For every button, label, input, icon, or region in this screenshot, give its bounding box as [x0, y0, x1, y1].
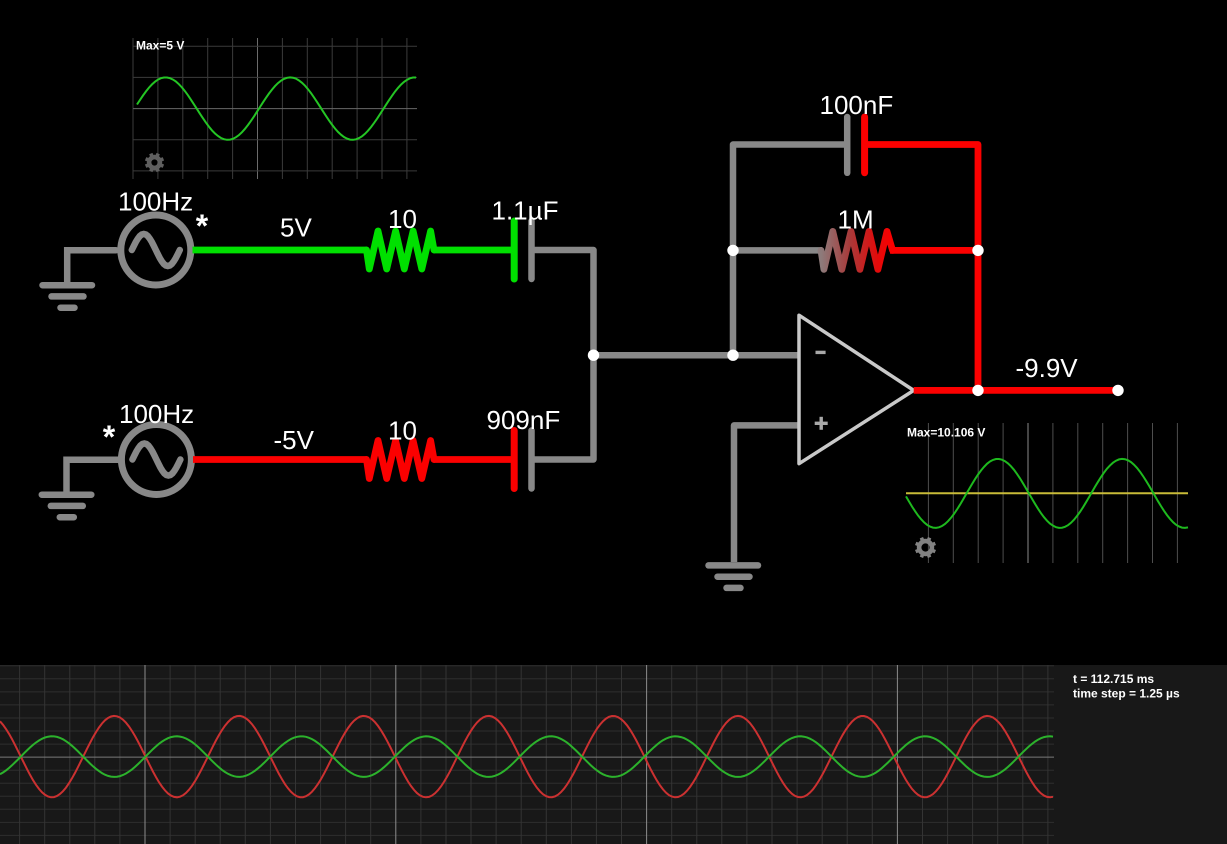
- op-amp U1: [799, 315, 914, 464]
- scope 1 gear icon: [146, 154, 164, 172]
- wire C1 to bus: [532, 250, 594, 355]
- bottom scope green trace: [0, 736, 1053, 777]
- junction node feedback left: [727, 245, 738, 256]
- wire op-amp + input elbow to ground: [734, 425, 799, 562]
- resistor R1: [367, 231, 435, 269]
- svg-text:909nF: 909nF: [487, 405, 561, 435]
- scope 2 gear icon: [916, 538, 936, 558]
- op-amp plus sign: [815, 422, 828, 425]
- wire R1 to C1 (green): [434, 247, 515, 254]
- bottom scope grid: [0, 665, 1054, 844]
- op-amp output wire (red): [914, 387, 1118, 394]
- ground G2: [42, 460, 119, 518]
- scope strip background: [0, 665, 1227, 844]
- svg-text:5V: 5V: [280, 213, 312, 243]
- output terminal post: [1112, 385, 1123, 396]
- capacitor C1 1.1uF: [511, 221, 518, 279]
- junction node inverting input: [727, 350, 738, 361]
- capacitor C2 909nF: [511, 431, 518, 489]
- svg-text:1M: 1M: [838, 205, 874, 235]
- svg-text:-5V: -5V: [274, 425, 315, 455]
- bottom scope red trace: [0, 716, 1053, 797]
- resistor R3 1M: [821, 231, 893, 269]
- ground G1: [43, 250, 117, 308]
- svg-text:100nF: 100nF: [820, 90, 894, 120]
- scope 2 trace: [906, 459, 1188, 528]
- wire V2 to R2 (red): [193, 456, 367, 463]
- svg-text:Max=10.106 V: Max=10.106 V: [907, 426, 985, 440]
- resistor R3 lead right (red): [890, 247, 978, 254]
- junction node feedback right: [972, 245, 983, 256]
- svg-text:Max=5 V: Max=5 V: [136, 39, 184, 53]
- scope 1 trace: [137, 77, 416, 139]
- svg-text:-9.9V: -9.9V: [1016, 353, 1079, 383]
- op-amp minus sign: [816, 351, 826, 354]
- AC source V2: [121, 425, 191, 495]
- resistor R3 lead left (gray): [733, 247, 822, 254]
- svg-text:10: 10: [388, 204, 417, 234]
- wire bus to op-amp inverting input: [594, 352, 800, 359]
- junction node bus: [588, 350, 599, 361]
- svg-text:100Hz: 100Hz: [118, 187, 193, 217]
- svg-text:*: *: [196, 208, 209, 244]
- svg-text:t = 112.715 ms: t = 112.715 ms: [1073, 672, 1154, 686]
- ground G3: [709, 565, 759, 588]
- scope 2 grid: [928, 423, 1177, 563]
- svg-text:*: *: [103, 419, 116, 455]
- AC source V1: [121, 215, 191, 285]
- wire C3 to output elbow (red): [865, 145, 978, 391]
- capacitor C3 100nF: [844, 117, 851, 173]
- scope 2 zero line: [906, 492, 1188, 494]
- wire R2 to C2 (red): [434, 456, 515, 463]
- svg-text:time step = 1.25 µs: time step = 1.25 µs: [1073, 687, 1180, 701]
- wire C2 to bus: [532, 355, 594, 459]
- resistor R2: [367, 441, 435, 479]
- wire V1 to R1 (green): [193, 247, 368, 254]
- svg-text:1.1µF: 1.1µF: [492, 196, 559, 226]
- svg-text:10: 10: [388, 416, 417, 446]
- feedback left wire elbow: [733, 145, 847, 356]
- scope 1 grid: [133, 38, 417, 179]
- junction node output: [972, 385, 983, 396]
- svg-text:100Hz: 100Hz: [119, 399, 194, 429]
